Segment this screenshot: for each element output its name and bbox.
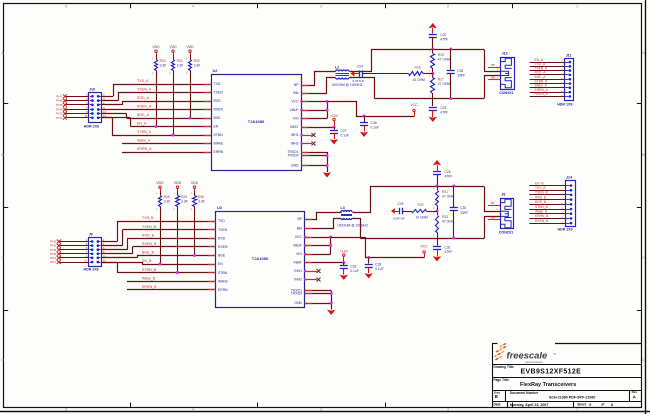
svg-text:B: B [495,394,498,399]
svg-text:freescale: freescale [507,349,548,360]
svg-text:4: 4 [192,408,194,412]
svg-text:ERRN: ERRN [218,288,228,292]
stub wires at J12 [488,67,501,69]
svg-text:TXD: TXD [218,219,225,223]
svg-text:BM: BM [491,76,496,80]
svg-text:47 OHM: 47 OHM [442,220,455,224]
svg-text:Sheet: Sheet [577,403,587,407]
svg-text:4: 4 [192,5,194,9]
svg-text:RXD: RXD [218,236,226,240]
svg-text:BM: BM [491,216,496,220]
wire choke to bus-minus node [353,219,361,239]
svg-text:TXEN_B: TXEN_B [142,225,157,229]
svg-text:0.1uF: 0.1uF [341,134,349,138]
IC U2 TJA1080 body [212,75,302,171]
svg-text:STBN: STBN [214,133,224,137]
svg-text:INH1: INH1 [294,269,302,273]
capacitor C28 47PF [433,171,441,173]
svg-text:C29: C29 [398,202,404,206]
bus-minus node wire [375,98,485,100]
svg-text:47 OHM: 47 OHM [438,58,451,62]
svg-text:J12: J12 [502,52,508,56]
svg-text:BGE_B: BGE_B [535,200,547,204]
svg-text:BM: BM [297,227,302,231]
svg-text:TRXD0: TRXD0 [291,292,302,296]
svg-text:PH2: PH2 [56,116,62,120]
svg-text:A: A [1,51,4,55]
svg-text:INH2: INH2 [294,278,302,282]
common-mode choke L3 [341,211,352,212]
svg-text:3.3K: 3.3K [194,64,202,68]
ground arrow for U3 [327,310,335,315]
capacitor C24 0.047UF [362,73,409,75]
svg-text:47 OHM: 47 OHM [442,195,455,199]
capacitor C26 0.1uF [362,114,365,117]
svg-text:BP: BP [294,83,299,87]
svg-text:3.3K: 3.3K [164,199,172,203]
svg-text:RXEN: RXEN [218,245,228,249]
svg-text:2: 2 [447,408,449,412]
svg-text:47PF: 47PF [440,111,448,115]
svg-text:2: 2 [447,5,449,9]
wires and labels into J14 [570,184,573,187]
svg-text:VDD: VDD [186,45,194,49]
svg-text:5: 5 [589,403,591,407]
svg-text:0.047UF: 0.047UF [393,217,405,221]
svg-text:5: 5 [65,5,67,9]
capacitor C30 33PF [453,186,455,207]
svg-text:R33: R33 [442,215,448,219]
svg-text:TM: TM [553,353,556,355]
svg-text:100OHM @ 100MHZ: 100OHM @ 100MHZ [332,83,363,87]
wire VCC rail [328,102,415,117]
svg-text:TXEN_A: TXEN_A [137,88,152,92]
svg-text:RXD_B: RXD_B [535,195,547,199]
svg-text:12: 12 [103,258,107,262]
svg-text:3.3K: 3.3K [198,199,206,203]
wires J10 to U2 stair routing [102,96,113,98]
svg-text:CON2X1: CON2X1 [499,231,513,235]
svg-text:J14: J14 [566,175,572,179]
svg-text:C24: C24 [357,64,363,68]
capacitor C31 47PF bottom [437,238,439,246]
capacitor C27 0.1uF [334,127,336,130]
svg-text:BGE: BGE [214,116,222,120]
wire choke to bus-plus node [353,187,371,213]
wire VBAT [305,262,344,264]
svg-text:VBAT: VBAT [290,125,299,129]
svg-text:RXEN_B: RXEN_B [142,242,157,246]
svg-text:R30: R30 [198,195,204,199]
svg-text:0.047UF: 0.047UF [353,79,365,83]
svg-text:EN_B: EN_B [142,259,152,263]
connector J9 HDR 2X6 [89,238,102,267]
svg-text:R32: R32 [418,203,424,207]
svg-text:C30: C30 [460,206,466,210]
bus connector J8 CON2X1 [501,199,514,229]
wire choke to bus-minus node [350,78,375,99]
svg-text:semiconductor: semiconductor [525,360,543,364]
svg-text:GND: GND [291,164,299,168]
svg-text:TXEN_B: TXEN_B [535,191,549,195]
stub wires at J8 [488,205,501,207]
wires TRXD1 TRXD0 GND to ground [301,152,327,154]
wires VCC VBUF VIO tie [301,101,327,103]
outer sheet edge bottom [0,411,650,413]
bus connector J12 CON2X1 [501,58,515,90]
svg-text:3.3K: 3.3K [181,199,189,203]
common-mode choke L2 [336,70,350,72]
capacitor C20 47PF [429,34,437,36]
svg-text:Wake_B: Wake_B [535,210,548,214]
resistor R26 10 OHM [423,73,433,75]
freescale logo chevrons [499,345,503,348]
no-connect INH1 [301,135,312,137]
svg-text:PK1: PK1 [50,260,56,264]
svg-text:11: 11 [84,258,87,262]
zone ticks left edge [4,103,9,105]
svg-text:33PF: 33PF [460,211,468,215]
svg-text:VDD: VDD [152,45,160,49]
svg-text:B: B [642,153,645,157]
svg-text:HDR 2X6: HDR 2X6 [84,268,99,272]
svg-text:RXEN_A: RXEN_A [137,105,152,109]
svg-text:VIO: VIO [296,252,302,256]
resistor R31 47 OHM upper [437,186,439,190]
no-connect INH2 [301,143,312,145]
svg-text:TXD_A: TXD_A [137,79,149,83]
svg-text:HDR 1X9: HDR 1X9 [557,102,572,106]
svg-text:R29: R29 [181,195,187,199]
svg-text:Wake_A: Wake_A [137,139,151,143]
svg-text:3.3K: 3.3K [160,64,168,68]
svg-text:47 OHM: 47 OHM [438,82,451,86]
svg-text:TJA1080: TJA1080 [248,119,265,124]
resistor R32 10 OHM [427,211,437,213]
svg-text:TRXD0: TRXD0 [287,154,298,158]
svg-text:10 OHM: 10 OHM [416,216,429,220]
svg-text:U3: U3 [217,206,222,210]
svg-text:C27: C27 [341,129,347,133]
svg-text:L3: L3 [341,206,345,210]
svg-text:INH1: INH1 [291,133,299,137]
wires J9 to U3 stair routing [102,241,118,243]
svg-text:WAKE: WAKE [214,142,225,146]
svg-text:BM: BM [293,91,298,95]
svg-text:C20: C20 [440,33,446,37]
bus loop wires to J12 [485,50,501,72]
svg-text:R24: R24 [177,59,183,63]
svg-text:C: C [642,256,645,260]
svg-text:+12V: +12V [330,114,339,118]
svg-text:0.1uF: 0.1uF [371,126,379,130]
svg-text:TXD_B: TXD_B [535,186,546,190]
wires TRXD1 TRXD0 GND to ground [305,290,332,292]
svg-text:INH2: INH2 [291,142,299,146]
signal wires and red net labels into U2 [113,84,211,86]
svg-text:EN_A: EN_A [137,122,147,126]
svg-text:1: 1 [576,408,578,412]
svg-text:TXD_B: TXD_B [142,216,154,220]
svg-text:BP: BP [491,201,495,205]
svg-text:J11: J11 [566,54,572,58]
svg-text:RXD_A: RXD_A [137,96,150,100]
svg-text:RXD_B: RXD_B [142,233,155,237]
svg-text:Date:: Date: [494,403,502,407]
capacitor C33 0.1uF [367,256,370,259]
svg-text:VDD: VDD [174,181,182,185]
svg-text:ERRN_B: ERRN_B [142,285,157,289]
svg-text:Monday, April 23, 2007: Monday, April 23, 2007 [510,403,548,407]
wire BM to choke L3 [305,219,342,229]
outer sheet edge right [645,0,647,414]
wire BP to choke L2 [302,72,336,86]
resistor R25 47 OHM upper [432,49,434,53]
zone ticks right edge [637,103,642,105]
svg-text:R27: R27 [438,78,444,82]
svg-text:C32: C32 [350,265,356,269]
svg-text:STBN_A: STBN_A [137,130,152,134]
svg-text:R22: R22 [194,59,200,63]
svg-text:47PF: 47PF [440,37,448,41]
wires and labels into J11 [569,61,572,64]
svg-text:C: C [1,256,4,260]
svg-text:WAKE: WAKE [218,279,229,283]
wire VBAT [301,127,334,129]
svg-text:RXD: RXD [214,99,222,103]
title block frame [492,343,494,407]
svg-text:3: 3 [320,408,322,412]
svg-text:C26: C26 [371,121,377,125]
capacitor C32 0.1uF [343,263,345,266]
zone ticks bottom edge [130,403,132,408]
svg-text:HDR 1X9: HDR 1X9 [558,228,573,232]
capacitor C29 0.047UF [403,211,412,213]
no-connect INH1 [305,271,318,273]
svg-text:C23: C23 [440,106,446,110]
port stubs left of J10 [65,96,89,98]
svg-text:R23: R23 [160,59,166,63]
svg-text:VCC: VCC [420,245,428,249]
svg-text:TXEN: TXEN [218,228,228,232]
svg-text:PH5: PH5 [56,103,62,107]
wire VCC rail [331,238,425,258]
svg-text:C25: C25 [457,69,463,73]
svg-text:J10: J10 [89,88,95,92]
ground arrow for U2 [323,172,331,177]
svg-text:D: D [642,358,645,362]
svg-text:Wake_B: Wake_B [142,276,156,280]
svg-text:BGE: BGE [218,254,226,258]
svg-text:3.3K: 3.3K [177,64,185,68]
svg-text:RXEN_B: RXEN_B [535,219,549,223]
resistor R27 47 OHM lower [432,74,434,78]
svg-text:FlexRay Transceivers: FlexRay Transceivers [520,382,576,388]
svg-text:R26: R26 [415,66,421,70]
svg-text:R25: R25 [438,53,444,57]
connector J14 HDR 1X9 [566,181,576,227]
svg-text:VCC: VCC [410,103,418,107]
svg-text:47PF: 47PF [445,174,453,178]
capacitor C25 33PF [450,49,452,70]
svg-text:BGE_B: BGE_B [142,251,155,255]
port stubs left of J9 [59,241,89,243]
svg-text:U2: U2 [213,69,218,73]
zone ticks top edge [130,4,132,9]
svg-text:Document Number: Document Number [510,391,539,395]
svg-text:8: 8 [611,403,613,407]
svg-text:CON2X1: CON2X1 [499,91,513,95]
svg-text:J8: J8 [501,193,505,197]
svg-text:TXEN: TXEN [214,91,224,95]
svg-text:VCC: VCC [291,100,299,104]
svg-text:R31: R31 [442,190,448,194]
svg-text:C33: C33 [375,263,381,267]
svg-text:RXEN_A: RXEN_A [535,92,549,96]
no-connect INH2 [305,279,318,281]
capacitor C23 47PF bottom [432,99,434,107]
wires VCC VBUF VIO tie [305,237,331,239]
svg-text:VIO: VIO [293,117,299,121]
connector J10 HDR 2X6 [89,93,102,123]
svg-text:0.1uF: 0.1uF [350,269,358,273]
svg-text:BGE_A: BGE_A [137,113,150,117]
svg-text:A: A [633,394,636,399]
svg-text:BP: BP [491,63,495,67]
svg-text:10 OHM: 10 OHM [413,78,426,82]
svg-text:Drawing Title:: Drawing Title: [494,365,515,369]
svg-text:SCH-21080 PDF-SPF-21080: SCH-21080 PDF-SPF-21080 [549,396,595,400]
svg-text:VDD: VDD [169,45,177,49]
svg-text:47PF: 47PF [445,250,453,254]
signal wires and red net labels into U3 [117,221,215,223]
svg-text:RXEN: RXEN [214,108,224,112]
bus-minus node wire [360,238,484,240]
svg-text:3: 3 [320,5,322,9]
svg-text:0.1uF: 0.1uF [375,267,383,271]
svg-text:STBN: STBN [218,271,228,275]
svg-text:STBN_B: STBN_B [535,205,549,209]
power arrow above cap C20 [429,23,437,28]
svg-text:C31: C31 [445,246,451,250]
power arrow above cap C28 [433,160,441,165]
bus loop wires to J8 [485,187,501,212]
svg-text:EN: EN [214,125,219,129]
svg-text:VBUF: VBUF [289,108,298,112]
svg-text:HDR 2X6: HDR 2X6 [84,124,99,128]
bus-plus node wire [370,186,484,188]
svg-text:R28: R28 [164,195,170,199]
svg-text:Page Title:: Page Title: [494,378,510,382]
svg-text:L2: L2 [335,66,339,70]
svg-text:VBAT: VBAT [293,261,302,265]
svg-text:EN_B: EN_B [535,181,544,185]
svg-text:C28: C28 [445,170,451,174]
IC U3 TJA1080 body [216,212,305,308]
svg-text:TJA1080: TJA1080 [252,256,269,261]
svg-text:J9: J9 [89,232,93,236]
svg-text:+12V: +12V [340,250,349,254]
svg-text:TXD: TXD [214,82,221,86]
wire BM to choke L2 [302,78,336,94]
svg-text:ERRN_B: ERRN_B [535,214,549,218]
svg-text:5: 5 [65,408,67,412]
svg-text:VBUF: VBUF [293,244,302,248]
svg-text:ERRN_A: ERRN_A [137,147,152,151]
svg-text:EN: EN [218,262,223,266]
wire BP to choke L3 [305,213,342,220]
svg-text:D: D [1,358,4,362]
svg-text:BP: BP [297,217,302,221]
svg-text:STBN_B: STBN_B [142,268,157,272]
svg-text:GND: GND [294,301,302,305]
svg-text:VDD: VDD [191,181,199,185]
svg-text:VCC: VCC [295,235,303,239]
svg-text:33PF: 33PF [457,73,465,77]
svg-text:ERRN: ERRN [214,150,224,154]
wire choke to bus-plus node [350,50,372,72]
svg-text:B: B [1,153,4,157]
bus-plus node wire [371,49,484,51]
svg-text:100OHM @ 100MHZ: 100OHM @ 100MHZ [337,223,368,227]
svg-text:EVB9S12XF512E: EVB9S12XF512E [521,368,582,375]
connector J11 HDR 1X9 [565,59,574,101]
svg-text:VDD: VDD [156,181,164,185]
svg-text:A: A [642,51,645,55]
svg-text:1: 1 [576,5,578,9]
resistor R33 47 OHM lower [437,211,439,215]
